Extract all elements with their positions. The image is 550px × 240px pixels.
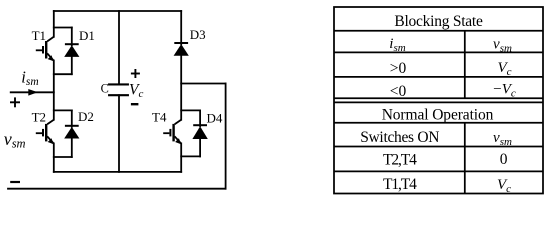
svg-text:Blocking State: Blocking State (394, 13, 483, 30)
svg-text:T4: T4 (152, 110, 167, 125)
svg-text:D3: D3 (190, 27, 206, 42)
svg-text:Normal Operation: Normal Operation (382, 107, 494, 124)
svg-text:T2,T4: T2,T4 (383, 152, 417, 169)
svg-text:Switches ON: Switches ON (360, 129, 439, 146)
svg-text:D2: D2 (78, 109, 94, 124)
svg-text:C: C (101, 81, 109, 95)
svg-text:T2: T2 (32, 110, 46, 125)
svg-text:D1: D1 (79, 28, 95, 43)
svg-text:T1: T1 (32, 28, 46, 43)
svg-text:0: 0 (500, 151, 508, 168)
svg-text:T1,T4: T1,T4 (383, 176, 417, 193)
svg-text:>0: >0 (390, 60, 407, 77)
svg-text:D4: D4 (207, 111, 223, 126)
svg-text:<0: <0 (390, 83, 407, 100)
